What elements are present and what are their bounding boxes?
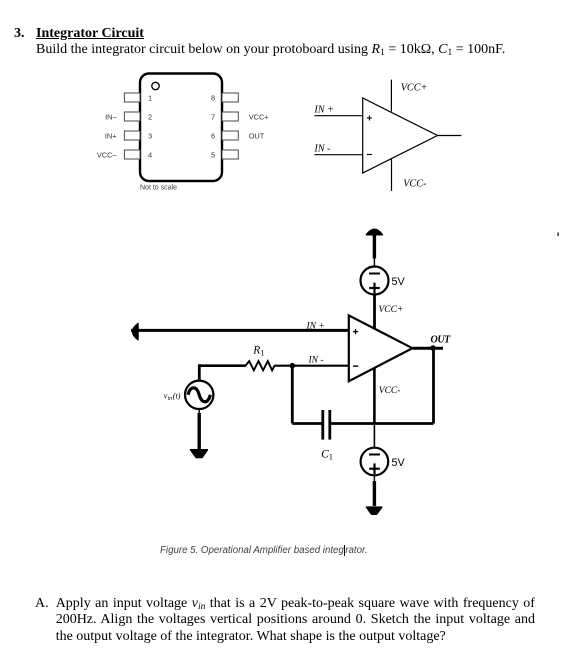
svg-text:VCC+: VCC+ — [401, 83, 428, 94]
source Vin sine — [185, 381, 213, 409]
svg-text:VCC–: VCC– — [97, 151, 118, 160]
node OUT junction — [430, 345, 436, 351]
wire vin to ground — [198, 409, 200, 450]
svg-text:2: 2 — [148, 113, 152, 122]
plus sign noninverting — [367, 116, 372, 121]
svg-text:R1: R1 — [252, 345, 264, 358]
svg-text:vin(t): vin(t) — [164, 392, 181, 403]
wire IN+ input — [314, 115, 362, 117]
wire IN+ long — [131, 329, 349, 332]
wire resistor to IN- — [274, 365, 349, 367]
plus sign noninverting main — [353, 329, 358, 334]
pin 2 lead — [124, 112, 140, 121]
pin 8 lead — [222, 93, 238, 102]
capacitor C1 — [323, 410, 330, 440]
svg-text:IN+: IN+ — [105, 132, 117, 141]
svg-text:OUT: OUT — [249, 132, 265, 141]
svg-text:IN–: IN– — [105, 113, 117, 122]
ground arrow vin — [191, 450, 208, 458]
node junction A — [290, 363, 296, 369]
voltage source V2 5V bottom — [361, 448, 389, 476]
svg-text:3: 3 — [148, 132, 152, 141]
question label A — [35, 596, 49, 612]
svg-text:4: 4 — [148, 151, 152, 160]
svg-text:VCC-: VCC- — [379, 386, 401, 396]
wire V1 to VCC+ pin — [373, 295, 376, 330]
svg-text:6: 6 — [211, 132, 215, 141]
svg-text:8: 8 — [211, 94, 215, 103]
intro line — [36, 42, 505, 58]
wire feedback right — [330, 422, 434, 425]
wire feedback left — [292, 422, 322, 425]
wire VCC+ supply — [390, 80, 392, 112]
pin 7 lead — [222, 112, 238, 121]
svg-text:IN +: IN + — [313, 105, 334, 116]
title number — [14, 26, 25, 42]
wire feedback up to out — [432, 348, 435, 424]
power rail arrow bottom — [367, 507, 382, 514]
voltage source V1 5V top — [361, 267, 389, 295]
minus sign inverting — [367, 154, 372, 156]
svg-text:VCC-: VCC- — [403, 179, 427, 190]
svg-text:IN -: IN - — [308, 356, 324, 366]
wire output — [438, 135, 462, 137]
svg-text:VCC+: VCC+ — [249, 113, 269, 122]
wire VCC- from opamp — [373, 368, 376, 448]
IC U1 DIP-8 package body — [140, 74, 222, 182]
svg-text:OUT: OUT — [431, 335, 452, 346]
pin 4 lead — [124, 150, 140, 159]
wire vin to node — [198, 364, 201, 381]
pin 1 lead — [124, 93, 140, 102]
svg-text:C1: C1 — [321, 449, 333, 462]
pin 3 lead — [124, 131, 140, 140]
pin 5 lead — [222, 150, 238, 159]
pin 6 lead — [222, 131, 238, 140]
question paragraph — [56, 596, 535, 645]
wire output main — [412, 347, 443, 350]
wire feedback down — [291, 366, 294, 424]
figure caption — [160, 545, 368, 556]
svg-text:5: 5 — [211, 151, 215, 160]
svg-text:5V: 5V — [392, 276, 406, 288]
minus sign inverting main — [353, 365, 358, 367]
stray period mark — [557, 233, 559, 236]
wire IN- input — [314, 154, 362, 156]
svg-text:VCC+: VCC+ — [379, 305, 404, 315]
wire source to resistor — [199, 364, 246, 367]
svg-text:IN -: IN - — [313, 144, 331, 155]
input arrow left — [133, 324, 138, 340]
op-amp symbol U1 triangle — [363, 98, 438, 173]
wire V2 to rail arrow — [373, 475, 375, 506]
resistor R1 — [246, 361, 275, 370]
svg-text:IN +: IN + — [306, 322, 325, 332]
title — [36, 26, 144, 42]
svg-text:5V: 5V — [392, 457, 406, 469]
pin 1 indicator circle — [152, 82, 159, 89]
svg-text:7: 7 — [211, 113, 215, 122]
svg-text:Not to scale: Not to scale — [140, 185, 177, 192]
wire VCC- supply — [391, 158, 393, 191]
op-amp U2 triangle main — [349, 315, 413, 381]
power rail arrow top — [366, 229, 382, 266]
svg-text:1: 1 — [148, 94, 152, 103]
